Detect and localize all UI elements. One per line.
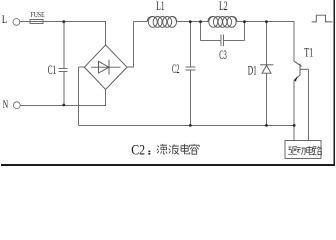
wire: D1 bottom lead	[266, 73, 268, 125]
inductor L2 coil	[208, 16, 237, 27]
wire: L terminal to fuse	[20, 21, 30, 23]
wire: L2 end to D1 dot to T1 corner	[237, 21, 295, 23]
svg-text:C2: C2	[172, 62, 179, 76]
waveform annotation	[312, 15, 333, 22]
wire: bridge left vertex stub	[79, 66, 85, 68]
caption CJK char BO (wave)	[169, 144, 179, 154]
junction: D1 bottom at bottom rail	[265, 124, 268, 127]
wire: C1 bottom lead	[63, 72, 65, 106]
junction: C3 branch right at rail	[243, 20, 246, 23]
drive box CJK char DONG (move)	[296, 147, 305, 154]
bridge internal diode	[91, 66, 121, 68]
drive box CJK char LU (circuit)	[313, 146, 322, 154]
svg-text:C3: C3	[219, 48, 227, 62]
wire: left drop to bottom rail	[78, 67, 80, 125]
drive circuit box	[285, 141, 321, 159]
bridge rectifier diamond	[84, 45, 127, 90]
wire: T1 base down to drive box	[308, 69, 310, 140]
wire: riser up to top rail	[133, 22, 135, 68]
drive box CJK char DIAN (electric)	[306, 146, 314, 155]
capacitor C1 plates	[59, 68, 68, 70]
wire: T1 collector lead	[293, 22, 295, 62]
wire: C1 junction to bridge corner	[64, 21, 106, 23]
terminal circle N	[13, 102, 20, 109]
junction: C1 bottom at N rail	[62, 104, 65, 107]
junction: C1 top at rail	[62, 20, 65, 23]
inductor L1 coil	[147, 16, 176, 27]
wire: C3 branch left horizontal	[201, 39, 222, 41]
border bottom	[1, 164, 335, 166]
terminal circle L	[13, 19, 20, 26]
svg-text:C1: C1	[48, 63, 57, 77]
svg-text:FUSE: FUSE	[31, 10, 45, 19]
wire: fuse to C1 top junction	[43, 21, 64, 23]
caption CJK char LV (filter)	[157, 144, 167, 154]
wire: N rail	[20, 104, 106, 106]
transistor T1	[294, 61, 301, 66]
svg-text:L: L	[2, 14, 7, 26]
svg-text:C2: C2	[131, 142, 145, 158]
fuse body	[30, 20, 43, 24]
junction: C2 top at rail	[189, 20, 192, 23]
wire: bridge right vertex to riser	[127, 66, 134, 68]
capacitor C2 plates	[186, 66, 196, 68]
caption CJK char RONG (capacity)	[190, 144, 200, 154]
wire: C2 bottom lead	[189, 70, 191, 125]
wire: T1 emitter down to drive box	[293, 79, 295, 140]
wire: C3 branch left drop	[200, 22, 202, 41]
wire: L1 to C2 dot to C3 branch dot	[177, 21, 208, 23]
caption fullwidth colon	[148, 151, 150, 155]
wire: bottom rail	[79, 124, 295, 126]
svg-text:L2: L2	[219, 0, 228, 13]
wire: C1 top lead	[63, 22, 65, 69]
border right	[333, 0, 335, 166]
junction: C3 branch left at rail	[199, 20, 202, 23]
caption CJK char DIAN (electric)	[181, 144, 190, 154]
capacitor C3 plates	[220, 35, 222, 47]
junction: T1 emitter at bottom rail	[293, 124, 296, 127]
svg-text:N: N	[3, 99, 9, 111]
junction: D1 top at rail	[265, 20, 268, 23]
wire: D1 top lead	[266, 22, 268, 65]
wire: C3 branch right horizontal	[224, 39, 245, 41]
diode D1	[260, 64, 273, 66]
wire: C2 top lead	[189, 22, 191, 67]
drive box CJK char QU (drive)	[288, 147, 297, 155]
wire: drop to bridge top vertex	[105, 22, 107, 45]
svg-text:L1: L1	[156, 0, 165, 13]
wire: rail to L1	[134, 21, 148, 23]
svg-text:T1: T1	[304, 45, 313, 59]
wire: C3 branch right riser	[244, 22, 246, 41]
junction: C2 bottom at bottom rail	[189, 124, 192, 127]
svg-text:D1: D1	[248, 63, 257, 77]
wire: bridge bottom vertex drop to N rail	[105, 89, 107, 105]
